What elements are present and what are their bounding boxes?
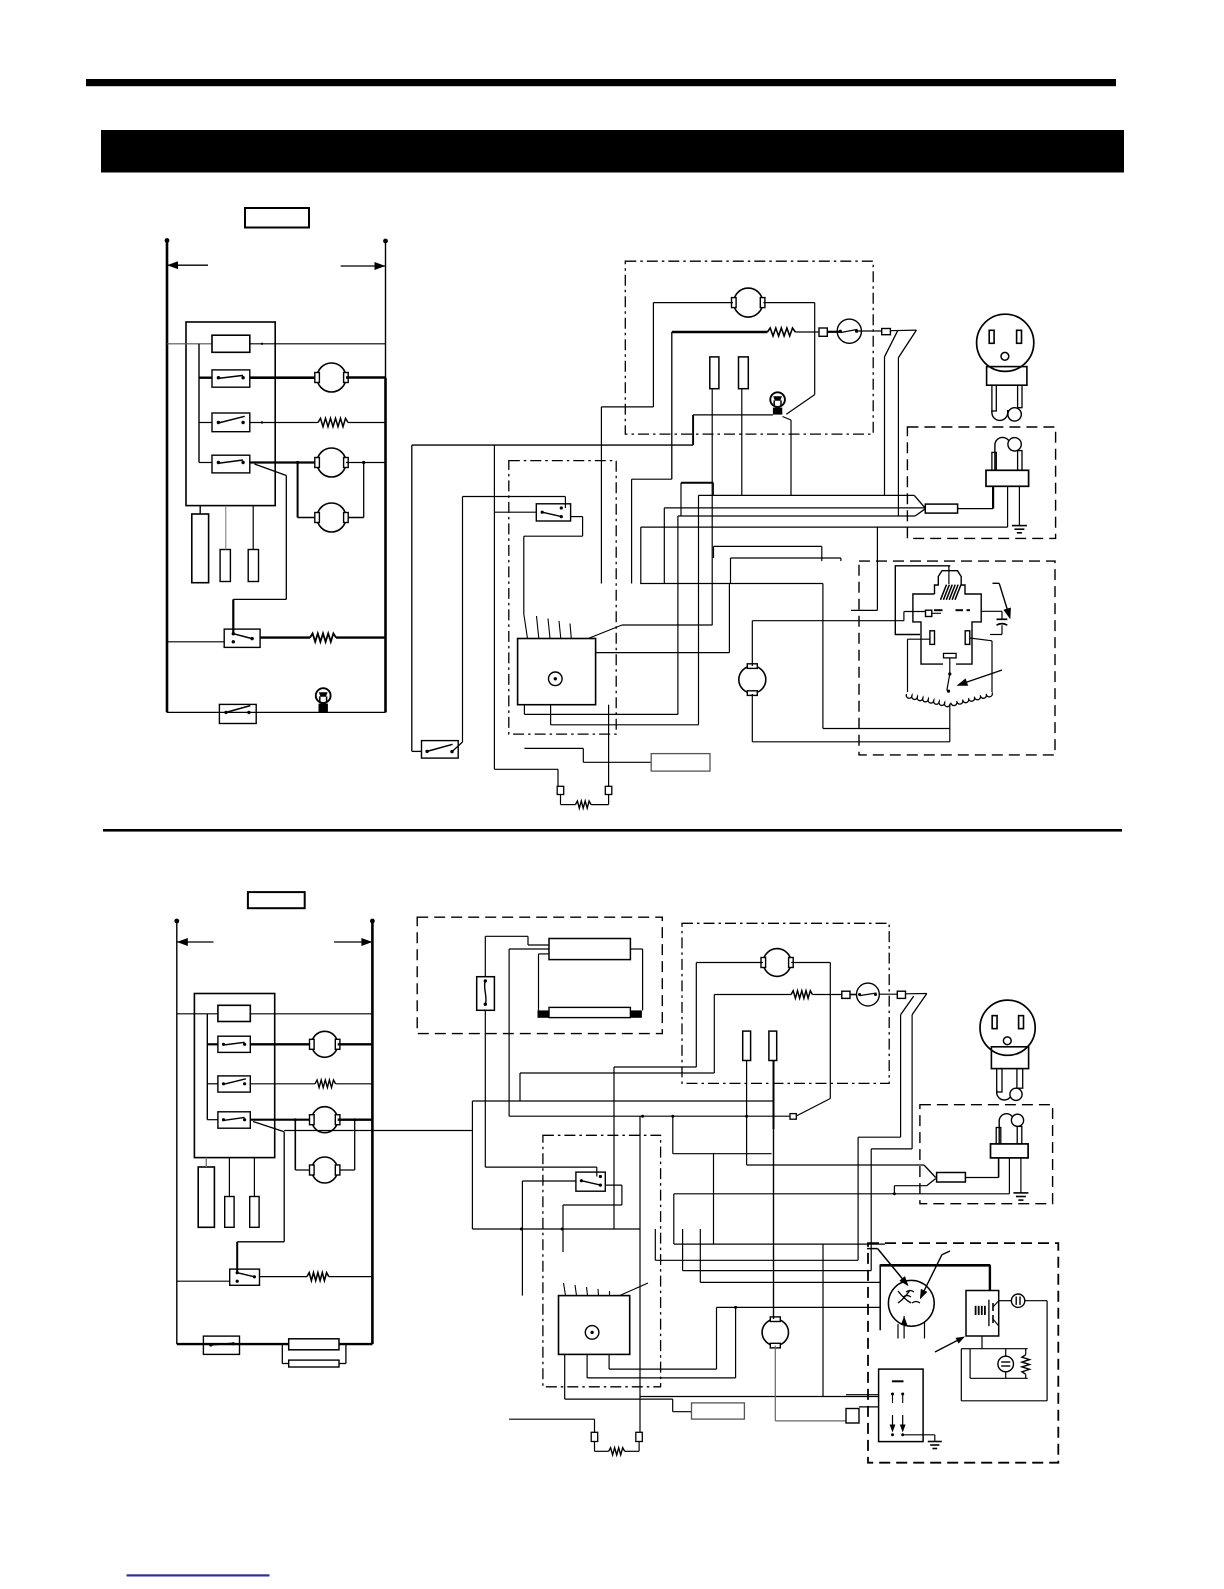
bottom resistor R4 terminals (557, 786, 564, 794)
callout arrow to capacitor (999, 583, 1009, 616)
fuse F1 (bottom) (218, 1005, 250, 1021)
harness long row to relay (640, 1396, 879, 1398)
connector plug CN1 (192, 514, 209, 583)
wire motor M1 to right rail (bold) (346, 376, 386, 379)
appliance plug cord loop (995, 437, 1010, 470)
switch SW1 wire (bottom, bold) (207, 1043, 218, 1045)
motor M3 (bottom) (312, 1157, 338, 1183)
plug earth lead (1018, 486, 1020, 525)
inline terminal (790, 1114, 796, 1120)
turntable motor M5 (bottom) (762, 1319, 788, 1345)
relay switch SW7 (bottom) (576, 1172, 605, 1191)
wire fuse to right rail (bottom) (250, 1013, 372, 1015)
wire SW3 to defrost switch (255, 464, 287, 476)
cord loop at receptacle (992, 410, 1008, 420)
thermistor probe T2 (739, 357, 749, 389)
defrost switch SW4 (224, 629, 260, 647)
wire SW4 to resistor R2 (bold) (260, 636, 310, 638)
wire SW7 lower contact (571, 516, 583, 518)
connector CN3 (bottom) (250, 1197, 259, 1228)
terminal lug 2 (bottom) (897, 991, 905, 998)
interlock switch SW5 (219, 704, 256, 723)
controller box (bottom, dash-dot) (543, 1135, 661, 1387)
internal bus wire (198, 344, 200, 463)
relay switch SW7 (536, 504, 570, 521)
interlock switch SW5 (bottom) (203, 1336, 239, 1354)
wire SW7 left contact (bottom) (522, 1180, 576, 1182)
receptacle prongs (bottom) (997, 1069, 1002, 1092)
harness wires into timer box (bottom) (564, 1283, 566, 1296)
part label box (651, 754, 710, 772)
plug neutral lead (1007, 486, 1009, 527)
resistor R2 (bottom) (307, 1273, 329, 1281)
appliance plug cord loop (bottom) (999, 1114, 1014, 1144)
callout arrow to power module (935, 1338, 963, 1353)
motor M3 (turntable top) (317, 503, 346, 532)
wire SW3 to defrost switch (bottom) (253, 1122, 284, 1132)
section divider line (103, 829, 1122, 832)
harness wire y482 (bold) (681, 482, 713, 484)
noise filter NF1 (bottom) (937, 1173, 966, 1183)
monitor switch SW6 (411, 445, 413, 751)
harness wires into timer box (524, 614, 528, 639)
wire to magnetron centre tap (822, 584, 824, 729)
harness wire y479 (632, 478, 672, 480)
wire SW4 to resistor R2 (bottom) (260, 1276, 308, 1278)
bottom resistor R4 leads (557, 769, 559, 786)
wire SW8 lower lead (484, 1010, 486, 1167)
harness rows into inverter (674, 1243, 885, 1245)
motor M2 (stirrer) (317, 448, 346, 477)
magnetron cathode marks (934, 609, 943, 611)
thermal cutout feed wire (671, 332, 673, 479)
timer box bottom leads (bottom) (608, 1354, 610, 1369)
wire to part label (bottom) (564, 1354, 566, 1399)
transformer leads (897, 1324, 899, 1339)
right supply rail N (top diagram) (385, 241, 387, 378)
harness wire y508 (664, 507, 925, 509)
earth ground symbol (1012, 525, 1027, 527)
relay to chassis ground (903, 1434, 935, 1436)
switch SW2 wire (bottom) (207, 1083, 218, 1085)
long harness vertical (639, 1116, 641, 1432)
left supply rail L1 (top diagram) (166, 240, 169, 712)
magnetron side tab left (930, 631, 935, 645)
fuse F1 (212, 335, 250, 352)
switch SW1 (212, 370, 250, 387)
harness drop to relay row (822, 1244, 824, 1396)
wire SW7 top contact (564, 497, 566, 509)
bottom resistor R4 (bottom) (609, 1448, 625, 1455)
control panel box (186, 322, 275, 506)
filament switch (949, 658, 951, 674)
callout arrow into transformer 2 (921, 1255, 942, 1298)
internal bus wire (bottom) (206, 1014, 208, 1120)
heater feed resistor R3 (bottom) (714, 994, 791, 996)
supply cord break (bottom) (906, 993, 927, 995)
H.V. transformer winding right (970, 638, 992, 641)
terminal lug (bottom) (842, 991, 850, 998)
receptacle body (bottom) (991, 1047, 1028, 1069)
bottom resistor leads (bottom) (509, 1418, 594, 1420)
capacitor C3 (998, 1356, 1014, 1372)
diagram label box (bottom) (248, 892, 305, 908)
wire harness into filter (funnel) (914, 495, 925, 508)
wire SW7 lower contact (bottom) (605, 1184, 622, 1186)
timer motor box (bottom) (559, 1296, 630, 1355)
thermostat TH1 (bottom) (850, 994, 857, 996)
wire M5 top lead (751, 621, 753, 666)
harness wire from SW3 branch (471, 1101, 473, 1229)
wire M2 to right rail (bottom, bold) (338, 1118, 373, 1120)
H.V. transformer frame (880, 1265, 990, 1330)
wire L1 to fuse (167, 343, 212, 345)
cord conductor down 1 (900, 1015, 902, 1137)
wire R1 to right rail (348, 422, 386, 424)
switch SW2 wire (199, 422, 212, 424)
voltage dimension arrow right (341, 265, 386, 267)
filter output wire (958, 508, 994, 510)
harness wire y1116 (509, 1115, 790, 1117)
dimension arrow right (bottom) (334, 941, 372, 943)
magnetron body outline (913, 571, 981, 664)
harness rows to magnetron box (714, 545, 822, 547)
wire L1 to fuse (bottom) (177, 1013, 218, 1015)
thermistor probe T2 (bottom) (769, 1031, 777, 1060)
wire SW7 left contact (494, 511, 536, 513)
heater element H2 (549, 1007, 630, 1017)
relay RY1 box (879, 1369, 924, 1442)
switch SW2 (bottom) (218, 1076, 250, 1092)
switch SW3 (bottom) (218, 1112, 250, 1128)
wire lamp to M4 lead (diagonal) (786, 395, 814, 415)
wire fuse to right rail (250, 343, 386, 345)
wire M4 right lead (bottom) (791, 962, 830, 964)
funnel into filter (bottom) (924, 1165, 936, 1178)
neutral wire y527 (641, 526, 1008, 528)
wire R2 to right rail (bold) (336, 636, 386, 638)
noise filter box (bottom, dashed) (920, 1105, 1053, 1204)
controller box (dash-dot) (509, 461, 616, 734)
wire M5 bottom lead (751, 694, 753, 742)
connector CN2 (bottom) (225, 1197, 234, 1228)
magnetron input terminal (926, 610, 932, 616)
harness wire y495 (699, 494, 915, 496)
heater link wire left (539, 953, 550, 955)
appliance plug body (992, 452, 996, 470)
timer box bottom leads (523, 705, 525, 715)
thermostat TH1 (827, 331, 840, 333)
header rule bar (86, 79, 1116, 86)
H.V. capacitor C1 (981, 610, 1002, 612)
bottom resistor R4 terminals (bottom) (591, 1432, 598, 1441)
appliance plug body (bottom) (996, 1128, 1001, 1144)
thermistor probe T1 (710, 357, 719, 389)
snubber network rails (961, 1348, 970, 1350)
heater resistor R3 (bold feed) (672, 331, 768, 333)
relay contacts with arrows (892, 1415, 894, 1430)
H.V. transformer T1 (888, 1280, 934, 1326)
wire SW3 branch to controller (bottom) (284, 1130, 472, 1132)
switch SW1 (bottom) (218, 1036, 250, 1052)
magnetron filament coil (941, 585, 947, 600)
filter output (bottom) (965, 1177, 998, 1179)
wire M4 left lead (bottom) (696, 962, 763, 964)
plug neutral lead (bottom) (1008, 1158, 1010, 1194)
cord conductor down 2 (911, 1015, 913, 1149)
turntable motor M5 (739, 666, 766, 693)
heater feed wire 2 (509, 948, 549, 950)
damper switch SW8 (477, 977, 495, 1011)
fan motor M1 (bottom) (312, 1031, 338, 1057)
fan motor M4 (bottom) (763, 949, 791, 977)
noise filter NF1 (925, 504, 957, 513)
title bar (black) (101, 130, 1124, 173)
magnetron shield rect (895, 566, 950, 635)
control panel box (bottom) (194, 994, 274, 1158)
wire SW7 top contact (bottom) (596, 1167, 598, 1176)
callout arrow into transformer 1 (878, 1249, 908, 1285)
wire M5 top lead (bottom) (773, 1129, 775, 1319)
switch SW2 (212, 413, 250, 432)
power module (IGBT) (966, 1291, 999, 1337)
wire left rail to SW4 (bottom) (177, 1280, 230, 1282)
inverter unit box (dashed) (868, 1243, 1058, 1463)
harness wire y516 (678, 515, 915, 517)
switch SW3 wire (bold) (199, 462, 212, 464)
oven cavity box (bottom, dash-dot) (682, 923, 889, 1083)
left supply rail L1 (bottom diagram) (176, 921, 178, 1345)
wall receptacle (bottom) (980, 1000, 1035, 1055)
wire M4 left lead (653, 302, 733, 304)
wire C2 to rail (1025, 1300, 1047, 1302)
parallel branch to motor M3 (bottom) (294, 1120, 296, 1170)
wire motor M2 to right rail (346, 462, 386, 464)
earth ground symbol (bottom) (1013, 1192, 1028, 1194)
heater element H1 (549, 939, 630, 960)
oven lamp LP1 (316, 688, 331, 703)
timer lead row y652 (596, 652, 730, 654)
bottom interlock wire (bottom, bold) (177, 1343, 373, 1345)
noise filter box (dashed) (907, 427, 1055, 538)
wire M5 bottom lead (bottom) (774, 1346, 776, 1421)
wire SW8 to heater (484, 936, 486, 976)
chassis ground symbol (928, 1441, 942, 1443)
terminal lug (819, 328, 827, 336)
oven lamp block LP1 (bottom) (289, 1339, 339, 1350)
heater link wire right (630, 948, 642, 950)
switch SW3 (212, 455, 250, 473)
harness wire y1101 (472, 1100, 773, 1102)
diagram label box (top) (245, 208, 309, 228)
magnetron heater bottom plate (944, 653, 957, 658)
dimension arrow left (bottom) (177, 941, 214, 943)
connector CN2 (220, 550, 230, 582)
callout arrow up at leads (903, 1316, 905, 1339)
connector CN3 (248, 550, 258, 582)
receptacle prongs (992, 385, 996, 411)
wire left rail to SW4 (167, 641, 224, 643)
defrost switch SW4 (bottom) (230, 1269, 260, 1285)
switch SW1 wire (bold) (199, 377, 212, 379)
voltage dimension arrow left (167, 264, 208, 266)
neutral drop to magnetron (876, 527, 878, 610)
cavity lamp wire (693, 414, 773, 416)
resistor R1 (318, 418, 348, 426)
cavity lamp LP2 (770, 392, 785, 407)
magnetron side tab right (965, 631, 970, 645)
bottom resistor R4 (575, 801, 591, 808)
terminal diagonal to M4 lead (796, 1099, 830, 1117)
timer motor box (518, 639, 596, 705)
harness wire y583 (640, 583, 823, 585)
fan motor M4 (734, 288, 763, 317)
cord loop at receptacle (bottom) (997, 1090, 1012, 1100)
parallel branch wires to motor M3 (297, 463, 299, 518)
thermistor probe T1 (bottom) (743, 1031, 751, 1060)
wall receptacle (977, 314, 1034, 371)
bottom interlock wire (167, 711, 386, 713)
lamp parallel branch (bottom) (281, 1344, 283, 1363)
harness riser wires (672, 1116, 674, 1154)
wire M4 right lead (763, 302, 814, 304)
receptacle body (987, 367, 1027, 386)
motor M2 (bottom) (312, 1107, 338, 1133)
wire M1 to right rail (bottom) (338, 1043, 373, 1045)
switch SW3 wire (bottom, bold) (207, 1119, 218, 1121)
timer lead to bottom resistor (608, 705, 610, 787)
magnetron assembly box (dashed) (859, 561, 1055, 755)
damping resistor R5 (1022, 1355, 1030, 1374)
plug earth lead (bottom) (1020, 1158, 1022, 1193)
resistor R1 (bottom) (315, 1080, 336, 1088)
H.V. transformer winding left (908, 638, 930, 640)
wire to part label (524, 747, 583, 749)
fan motor M1 (317, 363, 346, 392)
cord conductor wires (897, 358, 899, 517)
part label box (bottom) (692, 1403, 745, 1419)
callout arrow to filament switch (959, 672, 996, 685)
footer link underline (127, 1574, 270, 1576)
resonant capacitor C2 (1011, 1294, 1024, 1307)
connector plug CN1 (bottom) (198, 1167, 214, 1227)
terminal lug (882, 329, 891, 335)
oven cavity assembly box (dash-dot) (625, 261, 873, 434)
connector stub at inverter (846, 1409, 859, 1424)
heater unit box (dashed) (417, 917, 662, 1033)
right supply rail N (bottom diagram) (371, 921, 374, 1345)
resistor R2 (310, 633, 336, 641)
supply cord break (890, 329, 916, 332)
neutral wire (bottom) (674, 1193, 1010, 1195)
